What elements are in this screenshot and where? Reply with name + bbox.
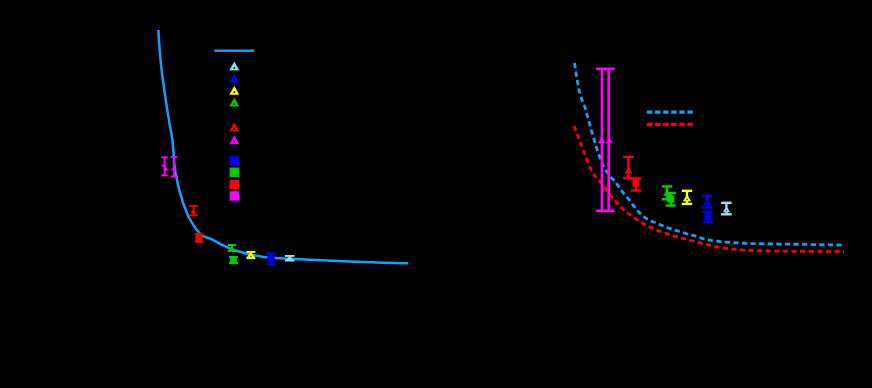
- right magenta triangle 2: [606, 137, 613, 143]
- right red square: [632, 180, 639, 187]
- left legend red triangle: [229, 123, 239, 132]
- right magenta point 2 error bar: [603, 69, 615, 211]
- right yellow triangle: [683, 194, 691, 201]
- left magenta triangle 1: [163, 166, 169, 170]
- right cyan triangle: [723, 206, 730, 212]
- right legend blue dashed sample: [647, 110, 694, 113]
- left magenta triangle 2: [171, 166, 177, 170]
- left green triangle error bar: [228, 245, 236, 251]
- left magenta point 2 bottom wide cap: [171, 175, 178, 177]
- left red square: [196, 235, 203, 242]
- left green square: [230, 257, 237, 264]
- left red square error bar: [195, 234, 203, 242]
- right red triangle: [625, 167, 633, 174]
- right green square: [667, 196, 674, 203]
- left legend green triangle: [229, 98, 239, 107]
- right red triangle error bar: [623, 157, 634, 178]
- left legend red square: [230, 180, 240, 190]
- left green triangle: [229, 246, 236, 250]
- left cyan triangle error bar: [285, 256, 295, 261]
- left panel theory curve (solid light-blue): [158, 30, 408, 263]
- left magenta point 2 error bar: [171, 157, 177, 177]
- left magenta point 1 error bar: [161, 157, 167, 175]
- right red square error bar: [631, 178, 641, 190]
- right blue square error bar: [703, 212, 713, 222]
- left legend blue triangle: [229, 74, 239, 83]
- right green triangle error bar: [662, 186, 673, 199]
- right green triangle: [663, 190, 671, 196]
- right yellow triangle error bar: [682, 191, 692, 204]
- left blue square: [268, 256, 275, 263]
- right panel blue dashed theory curve: [575, 63, 844, 245]
- left yellow triangle: [246, 252, 256, 258]
- left yellow triangle error bar: [247, 252, 256, 258]
- right blue triangle: [703, 198, 711, 205]
- left red triangle error bar: [189, 206, 198, 216]
- left red triangle: [191, 209, 197, 214]
- left blue point error bar: [266, 254, 276, 265]
- right green square error bar: [666, 193, 676, 206]
- left legend cyan triangle: [229, 62, 239, 71]
- left magenta point 1 inner tick: [162, 165, 167, 167]
- left legend: curve line sample: [214, 50, 254, 52]
- left blue triangle: [266, 253, 275, 258]
- right cyan triangle error bar: [721, 203, 732, 215]
- right panel red dashed theory curve: [574, 126, 844, 252]
- left legend yellow triangle: [229, 86, 239, 95]
- left cyan triangle: [286, 255, 294, 260]
- left legend blue square: [230, 156, 240, 166]
- right magenta triangle 1: [598, 137, 606, 144]
- right magenta point 1 error bar: [596, 69, 608, 211]
- left legend green square: [230, 168, 240, 178]
- right legend red dashed sample: [647, 123, 694, 126]
- left legend magenta triangle: [229, 135, 239, 144]
- left legend magenta square: [230, 191, 240, 201]
- right blue square: [705, 213, 712, 220]
- right blue triangle error bar: [702, 196, 712, 207]
- left green square error bar: [229, 257, 238, 263]
